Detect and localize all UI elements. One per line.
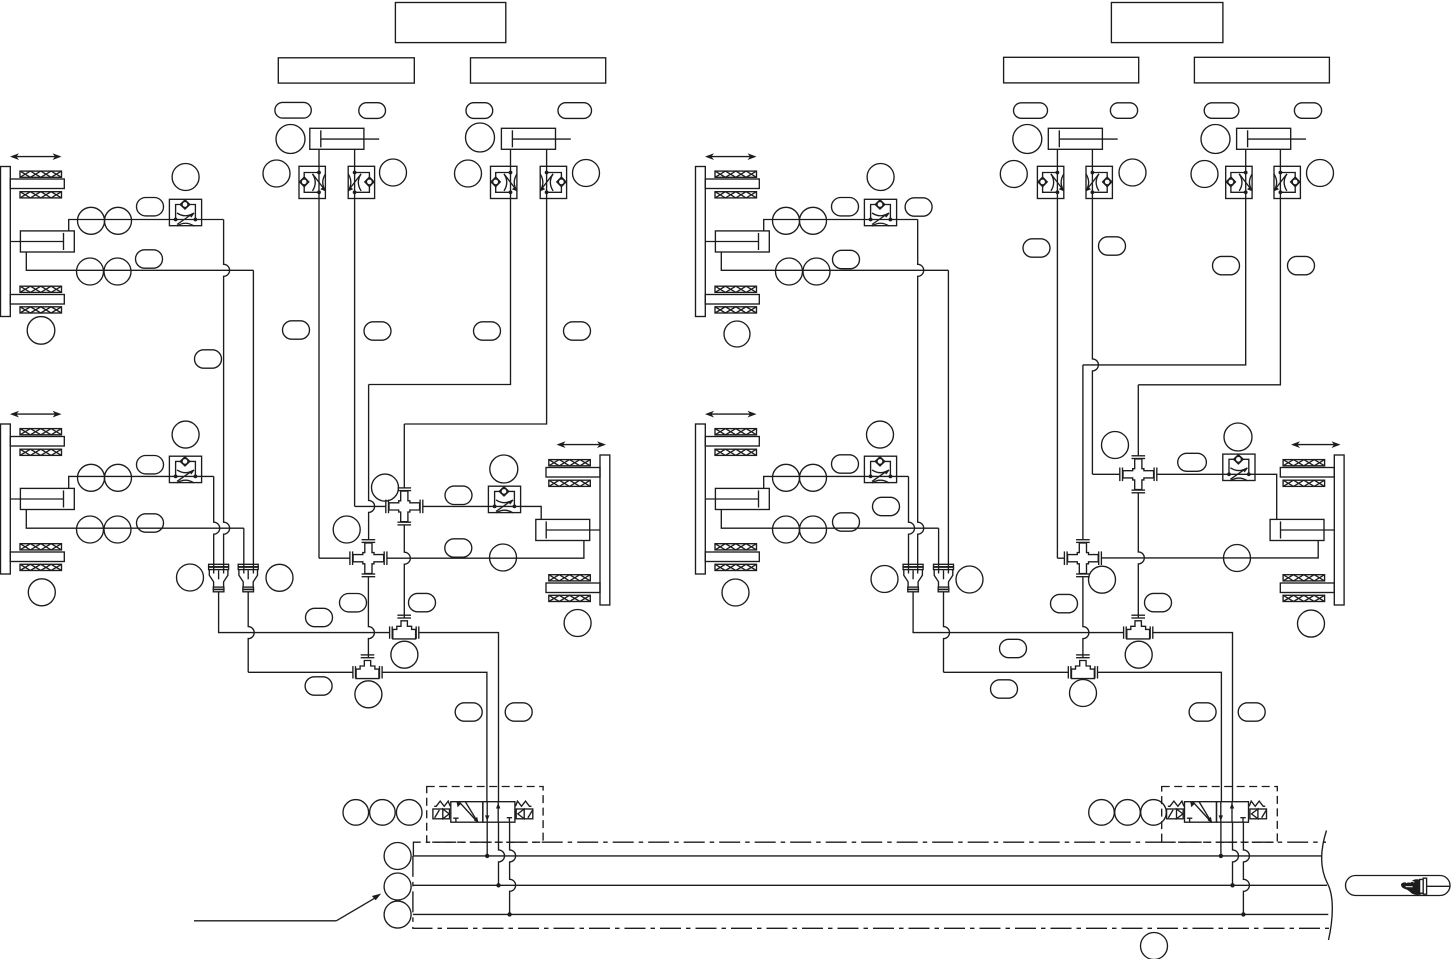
wire X-R1 to tee R1 <box>1138 493 1144 618</box>
node hose C2 <box>1099 237 1126 255</box>
wire L2 bottom port <box>26 510 244 529</box>
node pos C big <box>1013 125 1042 154</box>
wire R1 bottom port <box>721 252 948 270</box>
node R1 valve pos <box>867 164 894 191</box>
cross fitting X-R1 <box>1120 456 1157 493</box>
node tag B2 <box>558 103 592 119</box>
wire B2 down <box>403 424 405 488</box>
node R3 hose a <box>1178 453 1207 471</box>
node hose vlv a <box>455 703 482 721</box>
manifold chain box <box>413 842 1329 928</box>
wire L1 bottom port <box>26 252 253 270</box>
node L2 w1 a <box>78 464 105 491</box>
node hose A2 <box>364 322 391 340</box>
cylinder A <box>310 128 379 149</box>
flow-control valve D1 <box>1226 166 1253 198</box>
node pos T-R1 <box>1125 641 1152 668</box>
wire Y-L2 out <box>248 592 254 673</box>
node R1 hose a <box>832 198 859 216</box>
node R2 base <box>722 579 749 606</box>
wire B1 down <box>369 385 375 540</box>
dashed enclosure right valve <box>1162 787 1278 843</box>
wire cross L1 to valve H-L3 <box>423 506 541 519</box>
wire A ports <box>319 149 355 198</box>
wire D1 drop <box>1083 199 1246 365</box>
wire X-L1 to tee L1 <box>404 525 410 618</box>
wire B ports <box>511 149 547 198</box>
wire L1-2 drop <box>252 270 254 573</box>
node hose C1 <box>1023 239 1050 257</box>
node R2 hose b <box>833 513 860 531</box>
node pos B left <box>455 160 482 187</box>
node pos mid L <box>333 516 360 543</box>
node R2 valve pos <box>867 421 894 448</box>
wire D2 down <box>1137 385 1139 456</box>
node pos T-L1 <box>391 641 418 668</box>
tee fitting T-L1 <box>390 615 419 639</box>
wire SV-R P to rail1 <box>1220 822 1222 856</box>
node R1 w1 b <box>800 207 827 234</box>
node R3 base <box>1298 610 1325 637</box>
node R1 hose c <box>833 250 860 268</box>
label box L-B <box>471 58 606 83</box>
cross fitting X-L2 <box>350 540 387 577</box>
node R2 w1 a <box>773 464 800 491</box>
wire SV-R S to rail3 <box>1243 822 1249 914</box>
node L1 w2 a <box>77 258 104 285</box>
wire R1-1 drop <box>918 220 924 574</box>
node hose vlv b <box>505 703 532 721</box>
node hose hdr a <box>306 608 333 626</box>
union fitting Y-R2 <box>934 564 954 592</box>
flow-control valve H-L2 <box>169 456 201 483</box>
wire header B left <box>248 671 353 673</box>
rail 2 <box>413 884 1327 886</box>
node pos A big <box>276 125 305 154</box>
wire cross R1 to valve H-R3 <box>1157 474 1277 519</box>
node L2 w2 b <box>104 516 131 543</box>
tee fitting T-L2 <box>353 655 382 679</box>
node R2 hose c <box>873 497 900 515</box>
wire Y-R2 out <box>944 592 950 673</box>
node tag D1 <box>1204 103 1239 119</box>
wire R3 bottom port <box>1101 540 1318 558</box>
node hose hdr c <box>409 593 436 611</box>
node R1 w2 a <box>776 258 803 285</box>
motion arrow R3 <box>1291 441 1341 448</box>
wire A2 drop <box>354 199 356 507</box>
wire tee L1 to valve <box>418 633 498 802</box>
node hose B2 <box>564 322 591 340</box>
tee fitting T-R1 <box>1124 615 1153 639</box>
gripper L1 <box>1 167 75 317</box>
node pos B big <box>466 123 495 152</box>
node pos B right <box>573 160 600 187</box>
label box main left <box>395 3 505 43</box>
flow-control valve C1 <box>1037 166 1064 198</box>
node hose hdr b <box>340 594 367 612</box>
wire C1 drop <box>1056 199 1058 559</box>
node sv R pos 3 <box>1141 800 1167 826</box>
node hose D1 <box>1213 256 1240 274</box>
node pos Y-L1 <box>177 564 204 591</box>
leader arrow <box>194 894 381 921</box>
node tag C2 <box>1110 103 1137 119</box>
node L2 hose b <box>137 514 164 532</box>
flow-control valve B1 <box>491 166 518 198</box>
wire A2 to cross L1 <box>355 505 386 507</box>
wire L1 top port to valve H-L1 <box>69 220 224 231</box>
gripper R1 <box>696 167 770 317</box>
node L2 hose a <box>137 456 164 474</box>
junction P-R <box>1219 854 1223 858</box>
node R2 hose a <box>832 455 859 473</box>
union fitting Y-L2 <box>238 564 258 592</box>
node pos C right <box>1119 159 1146 186</box>
node sv L pos 2 <box>370 800 396 826</box>
node L1 hose a <box>137 198 164 216</box>
node pos A right <box>380 159 407 186</box>
motion arrow L3 <box>557 441 607 448</box>
wire C2 to cross R1 <box>1092 473 1119 475</box>
wire L1-1 drop <box>224 220 230 574</box>
wire D ports <box>1246 149 1281 198</box>
junction R-L <box>496 883 500 887</box>
wire D2 drop <box>1138 199 1280 385</box>
junction S-R <box>1241 912 1245 916</box>
wire header B right <box>944 671 1069 673</box>
wire X-L2 to tee L2 <box>368 577 374 658</box>
wire SV-L P to rail1 <box>486 822 488 856</box>
node pos Y-R2 <box>956 566 983 593</box>
node R1 base <box>724 321 750 347</box>
flow-control valve H-R1 <box>864 199 896 226</box>
junction P-L <box>485 854 489 858</box>
flow-control valve A2 <box>348 166 375 198</box>
node hose hdr f <box>991 680 1018 698</box>
node sv R pos 1 <box>1089 800 1115 826</box>
label box R-D <box>1194 57 1329 83</box>
node pos D right <box>1307 160 1334 187</box>
label box main right <box>1111 3 1223 43</box>
node hose B1 <box>474 322 501 340</box>
wire SV-L S to rail3 <box>510 822 516 914</box>
motion arrow R1 <box>705 153 757 160</box>
rail 3 <box>413 913 1328 915</box>
wire R2 top port to valve H-R2 <box>764 476 909 488</box>
wire SV-R R to rail2 <box>1233 822 1239 885</box>
node pos Y-L2 <box>266 564 293 591</box>
wire A1 to cross L2 <box>319 557 350 559</box>
union fitting Y-R1 <box>903 564 923 592</box>
wire tee L2 to valve <box>382 672 487 801</box>
node tag A2 <box>359 103 386 119</box>
node R3 w2 <box>1224 545 1251 572</box>
wire D1 down <box>1082 365 1084 540</box>
wire header A left <box>219 592 390 633</box>
gripper L3 <box>536 455 610 605</box>
node L2 valve pos <box>172 421 199 448</box>
node L3 w2 <box>490 544 517 571</box>
node R3 valve pos <box>1224 423 1252 451</box>
node tag B1 <box>466 103 493 119</box>
wire C ports <box>1057 149 1092 198</box>
node pos Y-R1 <box>871 566 898 593</box>
wire B1 drop <box>369 199 511 385</box>
flow-control valve A1 <box>299 166 326 198</box>
rail break <box>1322 831 1333 941</box>
node L3 hose a <box>445 486 472 504</box>
node pos mid R <box>1089 566 1116 593</box>
node sv R pos 2 <box>1115 800 1141 826</box>
wire C2 drop <box>1092 199 1098 475</box>
node L2 w2 a <box>77 516 104 543</box>
node L3 valve pos <box>490 455 518 483</box>
dashed enclosure left valve <box>427 787 543 843</box>
gripper L2 <box>1 424 75 574</box>
wire L2-2 drop <box>243 528 245 573</box>
node R1 w1 a <box>773 207 800 234</box>
label box R-C <box>1004 57 1139 83</box>
node pos T-R2 <box>1070 680 1097 707</box>
node rail1 port <box>384 843 411 870</box>
node tag A1 <box>275 102 311 118</box>
flow-control valve H-R3 <box>1223 454 1255 481</box>
solenoid valve SV-R <box>1167 801 1267 823</box>
node bottom note <box>1141 933 1168 959</box>
flow-control valve H-R2 <box>864 456 896 483</box>
node L2 base <box>28 579 55 606</box>
cross fitting X-L1 <box>386 488 423 525</box>
wire R2 bottom port <box>721 510 938 529</box>
motion arrow R2 <box>705 411 757 418</box>
flow-control valve B2 <box>540 166 567 198</box>
motion arrow L2 <box>10 411 62 418</box>
wire R1 top port to valve H-R1 <box>764 220 918 231</box>
node pos D left <box>1191 161 1218 188</box>
flow-control valve H-L3 <box>488 486 520 513</box>
node L1 valve pos <box>172 164 199 191</box>
node sv L pos 1 <box>343 800 369 826</box>
node R1 w2 b <box>803 258 830 285</box>
wire L2-1 drop <box>214 476 220 573</box>
node tag C1 <box>1014 103 1048 119</box>
node hose vlv d <box>1238 703 1265 721</box>
node rail2 port <box>384 873 411 900</box>
wire header A right <box>913 592 1124 633</box>
node R2 w2 b <box>800 516 827 543</box>
label box L-A <box>278 58 414 83</box>
wire SV-L R to rail2 <box>499 822 505 885</box>
wire tee R2 to valve <box>1097 672 1221 801</box>
wire C1 to cross R2 <box>1057 557 1064 559</box>
node pos X-L1 <box>372 474 399 501</box>
node L1 base <box>27 317 55 345</box>
union fitting Y-L1 <box>209 564 229 592</box>
flow-control valve D2 <box>1274 166 1301 198</box>
node L1 w2 b <box>104 258 131 285</box>
cross fitting X-R2 <box>1064 540 1101 577</box>
gripper R3 <box>1270 455 1344 605</box>
node L2 w1 b <box>105 464 132 491</box>
solenoid valve SV-L <box>433 801 533 823</box>
node L1 w1 b <box>105 207 132 234</box>
node pos D big <box>1201 125 1230 154</box>
node L3 hose b <box>445 539 472 557</box>
gripper R2 <box>696 424 770 574</box>
node hose hdr h <box>1145 593 1172 611</box>
node L3 base <box>564 610 591 637</box>
wire R2-2 drop <box>938 528 940 573</box>
hand pointer label <box>1346 876 1451 896</box>
wire tee R1 to valve <box>1152 633 1232 802</box>
cylinder D <box>1237 128 1306 149</box>
node pos C left <box>1000 161 1027 188</box>
node L1 hose c <box>136 250 163 268</box>
node pos X-R1 <box>1102 432 1129 459</box>
node pos A left <box>263 160 290 187</box>
cylinder C <box>1048 128 1117 149</box>
node hose A1 <box>283 321 310 339</box>
flow-control valve C2 <box>1086 166 1113 198</box>
node hose D2 <box>1288 256 1315 274</box>
motion arrow L1 <box>10 153 62 160</box>
wire B2 drop <box>404 199 546 425</box>
cylinder B <box>501 128 570 149</box>
node R1 hose b <box>905 198 932 216</box>
node hose hdr e <box>1000 639 1027 657</box>
node tag D2 <box>1294 103 1321 119</box>
node hose hdr d <box>305 677 332 695</box>
node rail3 port <box>384 901 411 928</box>
node R2 w2 a <box>773 516 800 543</box>
node sv L pos 3 <box>396 800 422 826</box>
node R2 w1 b <box>800 464 827 491</box>
node hose vlv c <box>1189 703 1216 721</box>
wire A1 drop <box>318 199 320 559</box>
rail 1 supply <box>413 855 1322 857</box>
junction R-R <box>1230 883 1234 887</box>
wire R1-2 drop <box>947 270 949 573</box>
node hose hdr g <box>1051 594 1078 612</box>
junction S-L <box>507 912 511 916</box>
wire L3 bottom port <box>387 540 584 558</box>
wire L2 top port to valve H-L2 <box>69 476 214 488</box>
wire R2-1 drop <box>909 476 915 573</box>
node pos T-L2 <box>355 681 382 708</box>
node L1 w1 a <box>78 207 105 234</box>
flow-control valve H-L1 <box>169 199 201 226</box>
wire X-R2 to tee R2 <box>1083 577 1089 658</box>
node hose L1 drop <box>195 350 222 368</box>
tee fitting T-R2 <box>1068 655 1097 679</box>
